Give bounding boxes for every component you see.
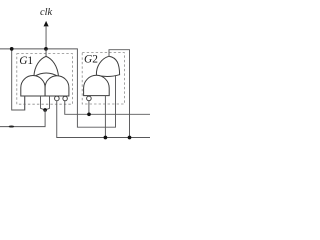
wire bubble2 down to row F <box>57 101 150 138</box>
enclosure G1 dashed box <box>17 54 73 105</box>
node junction dot G2 bubble on row C <box>87 112 91 116</box>
wire top rail, corner down to row E, row E to G2 OR input <box>0 49 116 127</box>
and-gate G1 left <box>21 76 45 96</box>
clk input arrow head <box>44 21 49 27</box>
and-gate G2 <box>84 75 110 95</box>
node junction dot clk rail <box>44 47 48 51</box>
svg-text:G1: G1 <box>19 55 33 67</box>
inverter bubble G1 input 3 <box>63 96 68 101</box>
wire G2 AND input 2 down to row F <box>104 96 106 138</box>
node junction dot row F left <box>104 136 108 140</box>
node junction dot row F right <box>128 136 132 140</box>
wire G2 OR output stub, top wire, down right side to row F <box>109 50 130 138</box>
wire G1 OR output stub <box>45 49 47 58</box>
wire clk vertical <box>45 26 47 49</box>
wire G2 bubble stub down to row C <box>88 101 90 115</box>
wire G1 right-AND input 1 bends to junction <box>45 96 49 110</box>
node blob on left exit wire <box>9 125 14 127</box>
svg-text:G2: G2 <box>84 54 98 66</box>
wire bubble3 down to row C <box>65 101 150 115</box>
svg-text:clk: clk <box>40 7 52 18</box>
wire G1 left-AND input 1 stub <box>24 96 26 110</box>
inverter bubble G1 input 2 <box>55 96 60 101</box>
wire G1 left-AND input 2 bends to junction <box>41 96 46 110</box>
node junction dot left rail <box>10 47 14 51</box>
inverter bubble G2 input 1 <box>87 96 92 101</box>
or-gate G1 body <box>34 56 59 76</box>
wire junction down and left to edge <box>0 110 45 127</box>
enclosure G2 dashed box <box>82 53 124 104</box>
or-gate G2 body <box>96 56 119 76</box>
wire left drop from rail to left AND input 1 <box>12 49 25 110</box>
node junction dot under G1 <box>43 108 47 112</box>
and-gate G1 right <box>45 76 69 96</box>
